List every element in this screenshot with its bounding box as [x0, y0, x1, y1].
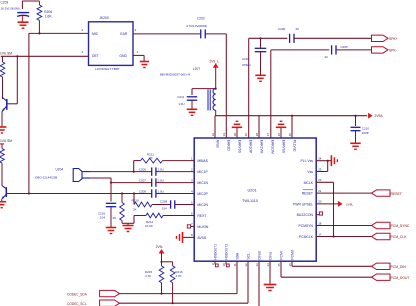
junction DET branch	[16, 55, 18, 57]
svg-text:10: 10	[222, 263, 226, 267]
inductor L207 part number	[160, 73, 190, 77]
wire AVdd rail	[215, 116, 367, 138]
resistor R206 label	[44, 10, 52, 18]
JK200 pin MIC label	[92, 32, 99, 36]
microphone U204 refdes	[56, 168, 64, 172]
svg-text:32: 32	[211, 133, 215, 137]
svg-text:2V9L: 2V9L	[156, 245, 164, 249]
wire U204 plus to C206 row	[91, 171, 152, 173]
svg-text:4.7K: 4.7K	[145, 274, 151, 278]
svg-text:EAR1VM: EAR1VM	[260, 140, 264, 154]
svg-text:1.0U: 1.0U	[158, 178, 164, 182]
svg-text:OBG-12L44CSB: OBG-12L44CSB	[35, 176, 57, 180]
svg-text:5: 5	[191, 200, 193, 204]
svg-text:4.7K: 4.7K	[175, 274, 181, 278]
wire top-left net	[22, 1, 39, 9]
wire ground tie	[122, 223, 134, 225]
svg-text:104: 104	[162, 206, 167, 210]
svg-text:PCM_CLK: PCM_CLK	[391, 235, 408, 239]
svg-text:C204: C204	[242, 57, 250, 61]
ground below C203	[18, 22, 29, 28]
wire C207 to pin3	[156, 182, 194, 184]
JK200 pin 2 number	[135, 28, 137, 32]
port SPK+	[372, 35, 398, 41]
junction PLLVdd	[291, 115, 293, 138]
connector JK200 refdes	[99, 16, 109, 20]
svg-text:C203: C203	[1, 1, 9, 5]
svg-text:22: 22	[318, 178, 322, 182]
capacitor C200	[290, 34, 294, 43]
power 2V9A arrow	[369, 113, 384, 118]
U201 pin 19 stub with jumper	[316, 212, 322, 215]
power 2V9L arrow top	[210, 60, 219, 89]
wire C202 to pin31	[205, 34, 226, 138]
wire C208 to pin4	[156, 193, 194, 195]
wire stub section2	[0, 144, 4, 149]
wire MIC row	[29, 32, 89, 34]
svg-text:20: 20	[296, 27, 300, 31]
capacitor C201 label	[98, 212, 106, 220]
svg-text:27: 27	[266, 133, 270, 137]
capacitor C203	[17, 13, 29, 22]
capacitor C207 label	[139, 178, 164, 182]
svg-text:2K: 2K	[149, 156, 153, 160]
svg-text:SPK+: SPK+	[389, 37, 398, 41]
svg-text:24: 24	[318, 157, 322, 161]
capacitor C207	[152, 178, 156, 186]
svg-text:EARVSS: EARVSS	[238, 140, 242, 154]
svg-text:31: 31	[222, 133, 226, 137]
svg-text:2: 2	[191, 167, 193, 171]
resistor R212	[134, 213, 163, 223]
wire PCMSYN	[316, 225, 371, 227]
svg-text:1: 1	[137, 50, 139, 54]
svg-text:2V9A: 2V9A	[375, 114, 384, 118]
svg-text:11: 11	[233, 263, 237, 266]
resistor R215	[159, 262, 164, 294]
capacitor C208	[152, 189, 156, 197]
svg-text:4: 4	[191, 189, 193, 193]
svg-text:SPK-: SPK-	[389, 49, 397, 53]
U201 pin 7 stub with jumper	[187, 225, 194, 228]
svg-text:C205: C205	[341, 45, 349, 49]
U201 right pin labels	[293, 159, 314, 239]
svg-text:DVdd: DVdd	[258, 251, 262, 259]
resistor R216 labels	[175, 270, 183, 278]
svg-text:R210: R210	[132, 199, 140, 203]
svg-text:C210: C210	[362, 126, 370, 130]
port SPK-	[372, 47, 397, 53]
svg-text:20: 20	[318, 200, 322, 204]
resistor R212 label	[145, 220, 154, 228]
svg-text:6: 6	[191, 211, 193, 215]
capacitor C206	[152, 167, 156, 175]
wire DVdd down	[258, 261, 260, 306]
svg-text:MIC2P: MIC2P	[197, 192, 208, 196]
capacitor C202	[201, 29, 206, 38]
wire PCMCLK	[316, 236, 371, 238]
U201 bottom pin labels	[214, 244, 295, 260]
ground at PLL Vss	[331, 155, 337, 166]
wire DET row	[1, 55, 89, 57]
U201 pin 9 stub	[215, 261, 218, 267]
junction R206-MIC row	[38, 32, 40, 34]
svg-text:MIC1P: MIC1P	[197, 170, 208, 174]
wire SCL net	[120, 261, 249, 303]
svg-text:RESET: RESET	[302, 192, 313, 196]
wire SPK- net	[271, 50, 330, 138]
wire Q2 to row4	[7, 193, 29, 195]
svg-text:C200: C200	[278, 27, 286, 31]
capacitor C211	[187, 97, 197, 109]
svg-text:PCMCLK: PCMCLK	[299, 235, 314, 239]
svg-text:1.0U: 1.0U	[158, 189, 164, 193]
wire U204 minus jog	[91, 178, 111, 183]
svg-text:3: 3	[81, 28, 83, 32]
port PCM_CLK	[372, 233, 408, 239]
ground inverted at pin 26	[276, 121, 286, 138]
wire EAR to C202	[133, 33, 200, 35]
JK200 pin EAR label	[120, 32, 128, 36]
svg-text:23: 23	[318, 167, 322, 171]
svg-text:DET: DET	[92, 54, 99, 58]
capacitor C202 labels	[186, 16, 207, 28]
resistor on section2 column	[0, 149, 4, 186]
JK200 pin 4 number	[81, 50, 83, 54]
svg-text:BBYM00200ST-061Y-N: BBYM00200ST-061Y-N	[160, 73, 190, 77]
wire RESET	[316, 192, 371, 194]
svg-text:DVss: DVss	[269, 251, 273, 259]
microphone U204	[73, 169, 90, 182]
svg-text:REXT: REXT	[197, 214, 206, 218]
connector JK200 box	[89, 22, 134, 66]
svg-text:22: 22	[325, 55, 329, 59]
svg-text:U201: U201	[248, 189, 257, 193]
svg-text:4: 4	[81, 50, 83, 54]
capacitor C205 labels	[325, 45, 349, 59]
wire row3 MIC1N	[111, 182, 152, 184]
svg-text:PCMO: PCMO	[291, 249, 295, 259]
JK200 pin GND label	[119, 54, 127, 58]
capacitor C209 label	[160, 200, 168, 211]
svg-text:220P: 220P	[362, 131, 369, 135]
svg-text:2K: 2K	[133, 207, 137, 211]
svg-text:EARVSS: EARVSS	[282, 140, 286, 154]
junction pullup tie	[160, 261, 172, 263]
ground at AVSS pin 8	[177, 232, 183, 243]
capacitor C210 labels	[362, 126, 370, 135]
svg-text:Vss: Vss	[307, 170, 313, 174]
svg-text:OPEN: OPEN	[242, 63, 251, 67]
resistor R215 labels	[145, 270, 153, 278]
wire PWR UPSEL	[316, 203, 339, 205]
wire SPK+ net	[249, 38, 288, 138]
wire C205 to SPK-	[336, 49, 372, 51]
U201 bottom pin numbers	[211, 263, 292, 267]
U201 top pin numbers	[211, 133, 292, 137]
ground mic network	[123, 226, 134, 232]
svg-text:U204: U204	[56, 168, 64, 172]
ground below Q2	[0, 202, 6, 208]
wire DVss stub	[269, 261, 271, 284]
svg-text:PCM_SYNC: PCM_SYNC	[391, 224, 410, 228]
JK200 pin DET label	[92, 54, 99, 58]
svg-text:25: 25	[288, 133, 292, 137]
svg-text:PWR UPSEL: PWR UPSEL	[293, 202, 313, 206]
transistor Q2	[2, 186, 7, 202]
capacitor C203 value text	[1, 1, 20, 11]
svg-text:16.3V(.08.0M): 16.3V(.08.0M)	[1, 6, 20, 10]
wire SDA net	[120, 261, 238, 293]
U201 left pin labels	[197, 159, 208, 240]
wire JK200 GND stub	[133, 55, 144, 61]
svg-text:1VU SM: 1VU SM	[0, 139, 12, 143]
svg-text:1.0U: 1.0U	[178, 102, 184, 106]
resistor R211 branch	[134, 161, 141, 172]
svg-text:PCMSYN: PCMSYN	[298, 224, 313, 228]
svg-text:28: 28	[255, 133, 259, 137]
capacitor C209	[171, 200, 175, 208]
resistor 2K vertical	[120, 194, 125, 224]
ground below Q1	[0, 127, 6, 133]
svg-text:GND: GND	[119, 54, 127, 58]
port PCM_DIN	[372, 263, 407, 269]
svg-text:8: 8	[191, 233, 193, 237]
svg-text:2: 2	[135, 28, 137, 32]
junction Vss tie	[327, 160, 329, 162]
junction R210 on row4	[133, 192, 135, 194]
junction MCLK-PCMCLK	[332, 235, 334, 237]
svg-text:C209: C209	[160, 200, 168, 204]
junction MIC-row4	[28, 192, 30, 194]
svg-text:LJ0730GHT TBRT: LJ0730GHT TBRT	[95, 67, 120, 71]
junction R211 tap	[133, 171, 135, 173]
svg-text:3: 3	[191, 178, 193, 182]
wire R210 to C209	[152, 204, 170, 206]
port CODEC_SCL	[67, 300, 120, 306]
svg-text:BUZZCON: BUZZCON	[297, 213, 314, 217]
svg-text:1: 1	[191, 156, 193, 160]
svg-text:MIC1N: MIC1N	[197, 181, 208, 185]
U201 refdes	[248, 189, 257, 193]
inductor L207	[208, 89, 216, 116]
capacitor C204	[255, 48, 267, 75]
svg-text:JK200: JK200	[99, 16, 109, 20]
svg-text:2V9_L: 2V9_L	[210, 60, 219, 64]
U201 top pin labels	[216, 140, 297, 154]
connector JK200 part number	[95, 67, 120, 71]
svg-text:MIC: MIC	[92, 32, 99, 36]
transistor Q1	[2, 98, 7, 127]
svg-text:104: 104	[100, 216, 105, 220]
ground below C201	[106, 228, 116, 234]
U201 pin 8 stub	[183, 236, 195, 238]
wire pin28 stub	[258, 116, 260, 138]
svg-text:HSDOUT2: HSDOUT2	[225, 244, 229, 260]
capacitor C200 labels	[278, 27, 299, 31]
wire MCLK	[316, 182, 333, 236]
op-amp U201 codec box	[194, 138, 316, 261]
svg-text:7: 7	[191, 222, 193, 226]
resistor R210	[134, 202, 152, 207]
wire C206 to pin2	[156, 171, 194, 173]
net label 1VU SM lower	[0, 139, 12, 143]
resistor R216	[170, 262, 175, 303]
ground below C204	[255, 75, 265, 81]
svg-text:RESET: RESET	[391, 192, 402, 196]
svg-text:1.0U: 1.0U	[158, 167, 164, 171]
ground below C210	[350, 143, 360, 149]
svg-text:R206: R206	[44, 10, 52, 14]
svg-text:L207: L207	[193, 67, 200, 71]
svg-text:9: 9	[211, 263, 215, 265]
port PCM_SYNC	[372, 222, 410, 228]
svg-text:2K: 2K	[113, 216, 117, 220]
capacitor C206 label	[139, 167, 164, 171]
svg-text:SDA: SDA	[236, 252, 240, 260]
capacitor C208 label	[139, 189, 164, 193]
capacitor C211 labels	[177, 95, 184, 106]
svg-text:21: 21	[318, 189, 322, 193]
U201 part number TWL1110	[242, 199, 258, 203]
wire Q1 to DET	[7, 56, 17, 104]
svg-text:13: 13	[255, 263, 259, 267]
svg-text:1VU SM: 1VU SM	[0, 51, 12, 55]
JK200 pin 3 number	[81, 28, 83, 32]
svg-text:MUXIN: MUXIN	[197, 225, 208, 229]
junction inductor top	[215, 88, 217, 90]
ground at JK200 GND	[140, 62, 149, 68]
svg-text:TWL1110: TWL1110	[242, 199, 258, 203]
wire R212 to pin6	[163, 215, 194, 217]
wire PLL Vss Vss tie	[316, 161, 331, 172]
svg-text:14: 14	[266, 263, 270, 267]
resistor R210 branch	[133, 194, 135, 205]
U201 right pin numbers	[318, 157, 322, 237]
junction 2K on row4	[121, 192, 123, 194]
wire PCMI to PCM_DIN	[292, 261, 372, 266]
svg-text:C208: C208	[139, 189, 147, 193]
capacitor C201	[106, 203, 116, 227]
svg-text:17: 17	[318, 232, 322, 236]
JK200 pin 1 number	[137, 50, 139, 54]
svg-text:C207: C207	[139, 178, 147, 182]
ground at DVss	[264, 285, 277, 291]
svg-text:10.0K: 10.0K	[145, 224, 153, 228]
capacitor C210	[351, 115, 361, 143]
inductor L207 refdes	[193, 67, 200, 71]
svg-text:PCM_DIN: PCM_DIN	[391, 265, 407, 269]
svg-text:EAR2O: EAR2O	[227, 140, 231, 152]
resistor R210 label	[132, 199, 140, 212]
svg-text:C206: C206	[139, 167, 147, 171]
wire MIC vertical	[28, 33, 30, 193]
microphone U204 part number	[35, 176, 57, 180]
power 2V9L arrow pullups	[156, 245, 165, 262]
ground below C211	[187, 109, 197, 115]
power 2V9L arrow right	[339, 201, 354, 206]
junction row3 at x111	[110, 182, 112, 184]
svg-text:HSDOUT1: HSDOUT1	[214, 244, 218, 260]
wire row4 to C208	[29, 193, 152, 195]
svg-text:12: 12	[244, 263, 248, 267]
svg-text:2V9L: 2V9L	[346, 203, 354, 207]
svg-text:CODEC_SDA: CODEC_SDA	[67, 292, 88, 296]
net label 1VU SM upper	[0, 51, 12, 55]
resistor R206	[37, 1, 42, 33]
svg-text:16: 16	[288, 263, 292, 267]
svg-text:AVdd: AVdd	[216, 140, 220, 148]
wire C211 tap	[192, 89, 216, 95]
svg-text:15: 15	[277, 263, 281, 267]
junction R215-SDA	[160, 293, 162, 295]
svg-text:C211: C211	[177, 95, 184, 99]
svg-text:SCL: SCL	[247, 253, 251, 260]
resistor R211 labels	[147, 153, 154, 160]
svg-text:4.7U6.3V(0603): 4.7U6.3V(0603)	[186, 24, 207, 28]
svg-text:PLLVdd: PLLVdd	[293, 140, 297, 152]
capacitor C204 labels	[242, 57, 251, 67]
svg-text:AVSS: AVSS	[197, 236, 207, 240]
svg-text:MCLK: MCLK	[304, 181, 314, 185]
port PCM_DOUT	[372, 274, 410, 280]
svg-text:1.6K: 1.6K	[45, 15, 53, 19]
U201 pin 10 stub	[226, 261, 229, 267]
svg-text:18: 18	[318, 221, 322, 225]
svg-text:PCM_DOUT: PCM_DOUT	[391, 276, 410, 280]
svg-text:MIC2N: MIC2N	[197, 203, 208, 207]
wire C200 to SPK+	[294, 37, 372, 39]
svg-text:30: 30	[233, 133, 237, 137]
svg-text:CODEC_SCL: CODEC_SCL	[67, 302, 87, 306]
capacitor C205	[332, 45, 336, 54]
junction R216-SCL	[172, 302, 174, 304]
port CODEC_SDA	[67, 290, 120, 296]
wire C201 column	[110, 183, 112, 202]
svg-text:EAR: EAR	[120, 32, 128, 36]
junction C204 tap	[259, 37, 261, 48]
wire PCMO to PCM_DOUT	[281, 261, 372, 277]
svg-text:PLL Vss: PLL Vss	[300, 159, 313, 163]
svg-text:PCMI: PCMI	[280, 251, 284, 259]
svg-text:EAR1OP: EAR1OP	[249, 140, 253, 154]
svg-text:C202: C202	[197, 16, 205, 20]
svg-text:EAR1OM: EAR1OM	[271, 140, 275, 154]
svg-text:26: 26	[277, 133, 281, 137]
port RESET	[372, 190, 402, 196]
resistor on DET column	[0, 56, 5, 99]
ground inverted at pin 30	[232, 121, 242, 138]
svg-text:MBIAS: MBIAS	[197, 159, 208, 163]
svg-text:29: 29	[244, 133, 248, 137]
resistor 2K vertical label	[113, 216, 117, 220]
resistor R211	[141, 158, 163, 163]
U201 left pin numbers	[191, 156, 193, 237]
wire R211 to pin1	[163, 160, 195, 162]
wire C209 to pin5	[175, 204, 194, 206]
